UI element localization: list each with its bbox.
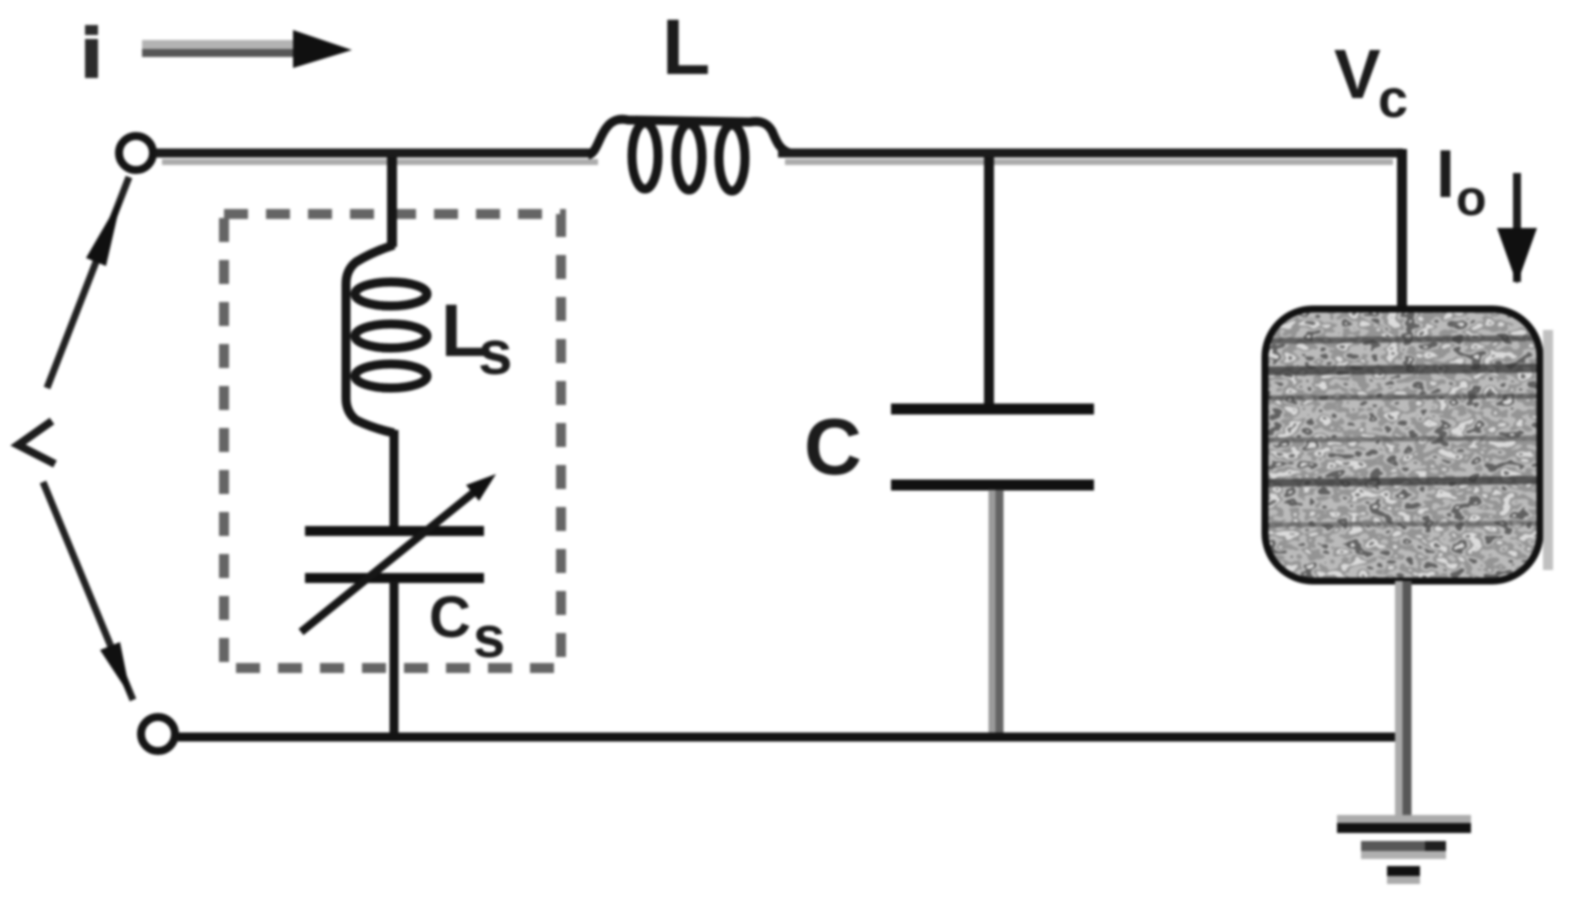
arrow i xyxy=(142,40,300,49)
wire corner to block xyxy=(1397,149,1407,309)
svg-text:L: L xyxy=(662,2,710,91)
svg-text:I: I xyxy=(1436,136,1455,212)
label V xyxy=(18,421,55,464)
voltage arrow V top xyxy=(47,177,129,388)
svg-text:o: o xyxy=(1456,170,1487,226)
wire C lower gray xyxy=(989,490,996,735)
wire node to C xyxy=(984,157,994,407)
capacitor C xyxy=(891,404,1094,415)
voltage arrow V bottom xyxy=(43,482,133,700)
svg-text:V: V xyxy=(1334,35,1381,113)
svg-text:s: s xyxy=(473,605,505,670)
svg-text:C: C xyxy=(429,585,471,650)
wire block to ground gray xyxy=(1395,581,1403,820)
ground xyxy=(1337,815,1471,823)
arrow Cs xyxy=(301,489,478,632)
wire Ls to Cs xyxy=(390,430,399,529)
wire top-left segment xyxy=(156,149,592,158)
label i xyxy=(85,25,98,35)
svg-text:c: c xyxy=(1378,69,1408,129)
arrow Io xyxy=(1513,173,1521,282)
terminal bottom-left xyxy=(141,717,175,751)
capacitor Cs variable xyxy=(305,526,484,536)
wire top-right segment xyxy=(778,149,1403,158)
bottom wire xyxy=(178,733,1406,742)
block load hatched xyxy=(1265,309,1540,581)
inductor L xyxy=(588,119,790,155)
svg-text:s: s xyxy=(478,319,512,388)
inductor Ls xyxy=(346,245,394,433)
svg-text:C: C xyxy=(804,402,862,491)
wire Cs to bottom xyxy=(390,581,399,737)
terminal top-left xyxy=(119,136,153,170)
dashed box xyxy=(224,214,561,668)
wire top node to Ls xyxy=(387,157,397,247)
